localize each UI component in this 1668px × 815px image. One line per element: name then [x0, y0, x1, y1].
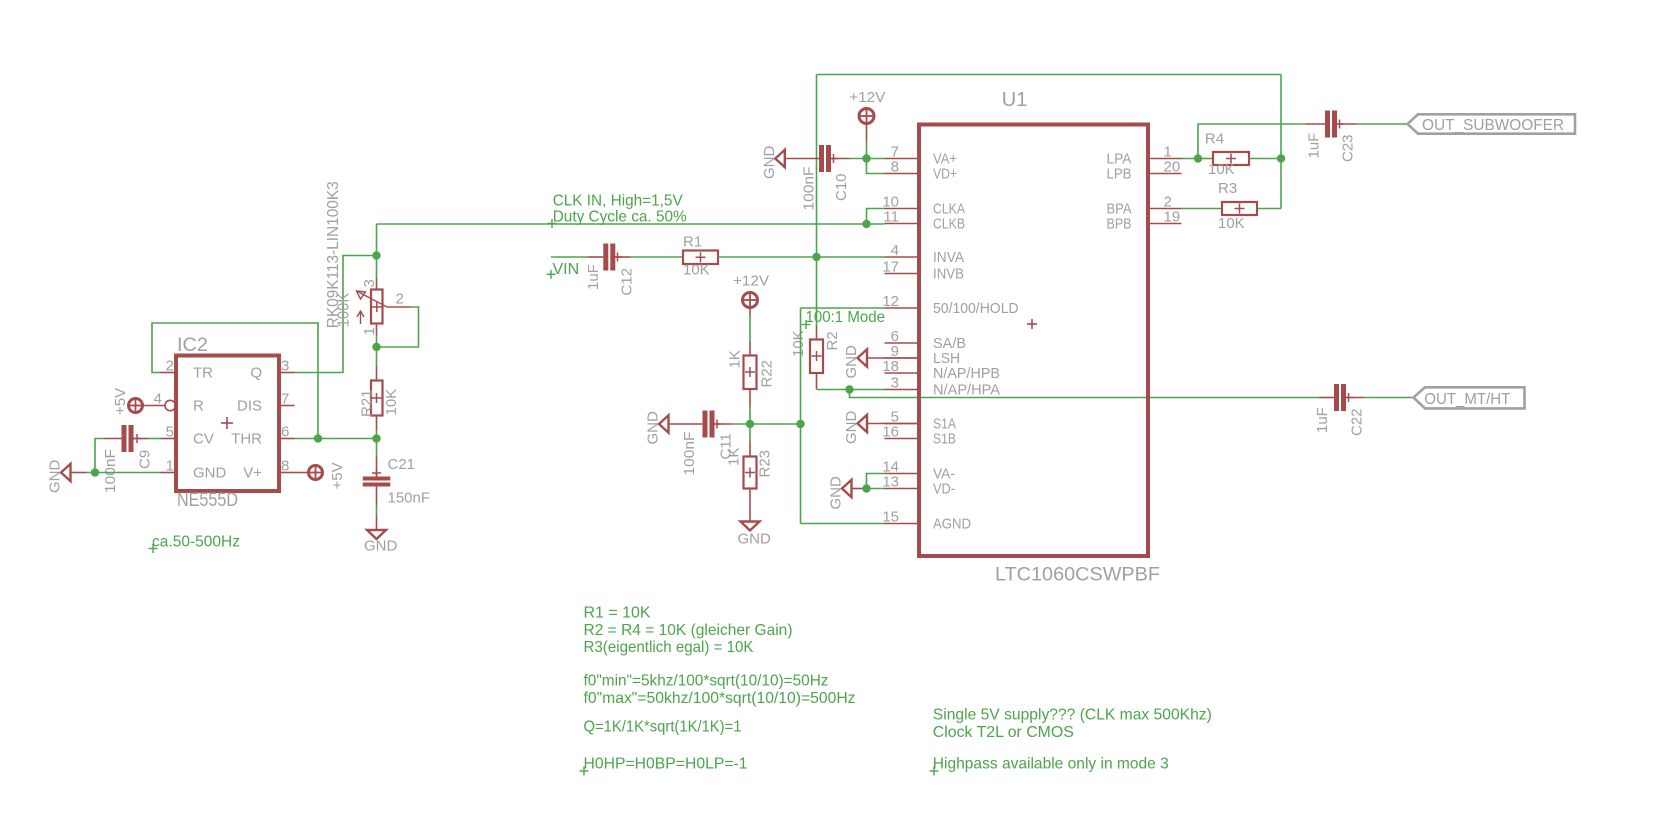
- svg-text:1: 1: [361, 327, 378, 335]
- svg-text:OUT_MT/HT: OUT_MT/HT: [1424, 391, 1510, 408]
- svg-text:100:1 Mode: 100:1 Mode: [806, 309, 886, 326]
- svg-text:AGND: AGND: [933, 516, 971, 533]
- +12V supply at R22: [743, 293, 758, 308]
- IC2 pin 6 THR stub: [279, 438, 295, 440]
- svg-text:1: 1: [166, 458, 174, 475]
- U1 pin 6 stub: [885, 342, 920, 344]
- U1 pin 15 stub: [885, 523, 920, 525]
- capacitor C22 plates: [1334, 384, 1339, 411]
- R1 origin cross: [696, 256, 706, 258]
- svg-text:+12V: +12V: [849, 89, 885, 106]
- U1 pin 14 stub: [885, 473, 920, 475]
- svg-text:+5V: +5V: [329, 462, 346, 489]
- C22 right lead: [1346, 397, 1364, 399]
- svg-text:GND: GND: [843, 411, 860, 445]
- wire feedback right vertical: [1280, 75, 1282, 209]
- origin cross CLK text: [548, 223, 557, 225]
- svg-text:1uF: 1uF: [585, 264, 602, 290]
- svg-text:50/100/HOLD: 50/100/HOLD: [933, 300, 1019, 317]
- svg-text:GND: GND: [828, 476, 845, 510]
- svg-text:Clock T2L or CMOS: Clock T2L or CMOS: [933, 724, 1074, 741]
- wire pin12: [801, 307, 885, 309]
- svg-text:3: 3: [891, 375, 899, 392]
- svg-text:VIN: VIN: [553, 261, 580, 278]
- IC2 pin 4 R stub: [143, 405, 165, 407]
- wire pot pin1 down: [376, 336, 378, 348]
- U1 pin 12 stub: [885, 307, 920, 309]
- IC2 origin cross: [221, 422, 233, 424]
- capacitor C23 plates: [1325, 111, 1330, 138]
- pot origin cross: [372, 306, 382, 308]
- svg-text:R3: R3: [1218, 180, 1237, 197]
- svg-text:R22: R22: [759, 360, 776, 388]
- origin cross ca.50-500Hz: [149, 548, 158, 550]
- svg-text:R4: R4: [1205, 131, 1224, 148]
- U1 pin 10 stub: [885, 208, 920, 210]
- capacitor C9 plates: [122, 425, 127, 452]
- svg-text:10K: 10K: [1208, 161, 1235, 178]
- wire C22 to flag: [1364, 397, 1414, 399]
- origin cross 100:1: [802, 324, 811, 326]
- U1 origin cross: [1027, 323, 1037, 325]
- svg-text:U1: U1: [1002, 89, 1028, 111]
- wire C9 left down to GND net: [95, 439, 104, 473]
- wire +12V to VA+: [866, 142, 868, 159]
- ground symbol at VD-: [842, 480, 852, 497]
- op-amp filter U1 body: [919, 125, 1148, 557]
- wire to VD-: [864, 488, 885, 490]
- ground symbol below C21: [367, 530, 386, 539]
- ground symbol left of C10: [775, 150, 785, 167]
- svg-text:5: 5: [166, 424, 174, 441]
- svg-text:6: 6: [281, 424, 289, 441]
- wire V+ to +5V: [295, 472, 309, 474]
- U1 pin 7 stub: [885, 158, 920, 160]
- junction node feedback/R4: [1277, 154, 1285, 162]
- wire wiper loop: [377, 307, 419, 347]
- pot adjust arrow: [360, 312, 362, 324]
- C9 right lead: [134, 438, 149, 440]
- C10 origin cross: [829, 158, 838, 160]
- wire R3 to feedback: [1257, 208, 1281, 210]
- capacitor C11 plates: [703, 411, 708, 438]
- svg-text:100nF: 100nF: [681, 432, 698, 476]
- svg-text:R21: R21: [359, 389, 376, 417]
- svg-text:Duty Cycle ca. 50%: Duty Cycle ca. 50%: [553, 209, 687, 226]
- resistor R22 body: [744, 356, 757, 390]
- R23 origin cross: [745, 472, 755, 474]
- svg-text:2: 2: [166, 358, 174, 375]
- svg-text:C9: C9: [137, 450, 154, 469]
- svg-text:R: R: [193, 398, 204, 415]
- wire R1 to INVA: [718, 256, 885, 258]
- svg-text:C10: C10: [833, 173, 850, 201]
- svg-text:11: 11: [883, 209, 899, 226]
- svg-text:GND: GND: [193, 465, 227, 482]
- resistor R2 body: [810, 340, 823, 374]
- svg-text:LTC1060CSWPBF: LTC1060CSWPBF: [995, 565, 1160, 586]
- junction node THR/R21: [372, 434, 380, 442]
- ground symbol at S1A: [858, 415, 868, 432]
- junction node HPA: [845, 385, 853, 393]
- wire Q to pot: [295, 256, 377, 373]
- R2 origin cross: [812, 355, 822, 357]
- C22 origin cross: [1344, 397, 1353, 399]
- C22 left lead: [1319, 397, 1334, 399]
- svg-text:CLKB: CLKB: [933, 216, 965, 233]
- potentiometer R20 body: [371, 290, 383, 324]
- GND stub: [71, 472, 87, 474]
- S1A GND lead: [867, 423, 920, 425]
- junction node CLK: [862, 220, 870, 228]
- svg-text:8: 8: [281, 458, 289, 475]
- wire +12V to R22: [749, 316, 751, 342]
- svg-text:INVB: INVB: [933, 266, 964, 283]
- svg-text:R23: R23: [757, 450, 774, 478]
- R21 origin cross: [372, 397, 382, 399]
- svg-text:20: 20: [1164, 159, 1181, 176]
- junction node pot top: [372, 251, 380, 259]
- wire AGND: [801, 523, 885, 525]
- svg-text:CV: CV: [193, 431, 214, 448]
- pot wiper stub: [387, 306, 410, 308]
- C21 top lead: [376, 457, 378, 477]
- resistor R21 body: [371, 381, 383, 416]
- svg-text:+5V: +5V: [112, 388, 129, 415]
- svg-text:1uF: 1uF: [1314, 407, 1331, 433]
- U1 pin 1 stub: [1148, 158, 1182, 160]
- svg-text:4: 4: [891, 242, 899, 259]
- VD- GND lead: [852, 488, 865, 490]
- wire R22 to C11 node: [749, 408, 751, 425]
- junction node pot/wiper: [372, 343, 380, 351]
- wire GND to IC2 pin1: [86, 472, 161, 474]
- +12V lead: [866, 124, 868, 142]
- svg-text:100nF: 100nF: [801, 167, 818, 211]
- wire CLK from pot: [377, 223, 867, 225]
- wire feedback vertical left: [816, 75, 818, 258]
- svg-text:BPB: BPB: [1107, 216, 1132, 233]
- junction node R22/C11: [746, 420, 754, 428]
- IC2 pin 3 Q stub: [279, 372, 295, 374]
- IC IC2 NE555D body: [176, 356, 279, 492]
- junction node TR/THR: [314, 434, 322, 442]
- svg-text:Highpass available only in mod: Highpass available only in mode 3: [933, 755, 1169, 772]
- svg-text:R2 = R4 = 10K (gleicher Gain): R2 = R4 = 10K (gleicher Gain): [584, 622, 793, 639]
- U1 pin 11 stub: [885, 223, 920, 225]
- U1 pin 13 stub: [885, 488, 920, 490]
- junction node GND/C9: [91, 468, 99, 476]
- svg-text:10K: 10K: [383, 389, 400, 416]
- ground symbol below R23: [741, 522, 760, 531]
- svg-text:Q=1K/1K*sqrt(1K/1K)=1: Q=1K/1K*sqrt(1K/1K)=1: [584, 719, 742, 736]
- IC2 pin 4 inversion bubble: [165, 400, 175, 410]
- svg-text:1K: 1K: [727, 350, 744, 368]
- IC2 pin 1 GND stub: [161, 472, 177, 474]
- U1 pin 9 stub: [885, 357, 920, 359]
- junction node VA+: [862, 154, 870, 162]
- svg-text:3: 3: [361, 279, 378, 287]
- svg-text:7: 7: [281, 391, 289, 408]
- svg-text:Q: Q: [250, 365, 262, 382]
- IC2 pin 7 DIS stub: [279, 405, 295, 407]
- origin cross H0HP note: [580, 770, 589, 772]
- R4 origin cross: [1226, 158, 1236, 160]
- svg-text:1K: 1K: [726, 448, 743, 466]
- C9 origin cross: [133, 438, 142, 440]
- svg-text:VD-: VD-: [933, 481, 955, 498]
- svg-text:10K: 10K: [790, 330, 807, 357]
- svg-text:C21: C21: [388, 456, 416, 473]
- wire HPA to OUT: [850, 390, 1320, 398]
- +12V R22 lead: [749, 308, 751, 316]
- svg-text:15: 15: [882, 509, 899, 526]
- svg-text:10K: 10K: [683, 261, 710, 278]
- resistor R4 body: [1213, 152, 1249, 165]
- ground symbol at LSH: [858, 349, 868, 366]
- pot wiper arrow: [359, 292, 388, 307]
- svg-text:H0HP=H0BP=H0LP=-1: H0HP=H0BP=H0LP=-1: [584, 755, 748, 772]
- wire TR loop: [152, 323, 318, 439]
- junction node mode wire: [796, 420, 804, 428]
- svg-text:150nF: 150nF: [388, 490, 431, 507]
- wire C21 to GND: [376, 505, 378, 515]
- resistor R3 body: [1222, 202, 1257, 215]
- svg-text:THR: THR: [231, 431, 262, 448]
- wire pot top to CLK: [376, 224, 378, 256]
- C23 origin cross: [1335, 123, 1344, 125]
- C12 origin cross: [613, 256, 622, 258]
- svg-text:C22: C22: [1349, 408, 1366, 436]
- IC2 pin 8 V+ stub: [279, 472, 295, 474]
- wire feedback top: [817, 74, 1282, 76]
- U1 pin 18 stub: [885, 372, 920, 374]
- svg-text:4: 4: [154, 391, 162, 408]
- svg-text:C23: C23: [1340, 134, 1357, 162]
- wire mode vertical: [800, 308, 802, 524]
- svg-text:R1 = 10K: R1 = 10K: [584, 604, 651, 621]
- U1 pin 3 stub: [885, 389, 920, 391]
- U1 pin 4 stub: [885, 256, 920, 258]
- wire C12 to R1: [630, 256, 683, 258]
- output flag OUT_MT/HT: [1414, 387, 1525, 408]
- C21 origin cross: [372, 472, 381, 474]
- C11 origin cross: [713, 423, 722, 425]
- svg-text:TR: TR: [193, 365, 213, 382]
- svg-text:16: 16: [882, 424, 899, 441]
- C10 right lead: [831, 158, 849, 160]
- svg-text:VD+: VD+: [933, 166, 957, 183]
- wire C11 to R22 node: [733, 423, 801, 425]
- ground symbol left of C11: [659, 415, 669, 432]
- svg-text:CLK IN, High=1,5V: CLK IN, High=1,5V: [553, 193, 683, 210]
- svg-text:GND: GND: [761, 146, 778, 180]
- wire R2 to N/AP/HPA: [817, 389, 885, 391]
- svg-text:R3(eigentlich egal) = 10K: R3(eigentlich egal) = 10K: [584, 639, 754, 656]
- wire pot to R21: [376, 347, 378, 366]
- capacitor C12 plates: [603, 244, 608, 271]
- svg-text:10K: 10K: [1218, 215, 1245, 232]
- U1 pin 20 stub: [1148, 173, 1182, 175]
- junction node VD-: [862, 484, 870, 492]
- R3 origin cross: [1235, 208, 1245, 210]
- C23 left lead: [1306, 123, 1326, 125]
- ground symbol GND left: [61, 464, 71, 481]
- svg-text:17: 17: [882, 259, 899, 276]
- C12 right lead: [615, 256, 630, 258]
- svg-text:R2: R2: [824, 331, 841, 350]
- +12V supply top: [859, 109, 874, 124]
- resistor R1 body: [683, 251, 718, 265]
- resistor R23 body: [744, 457, 757, 489]
- junction node LPA: [1194, 154, 1202, 162]
- IC2 pin 2 TR stub: [161, 372, 177, 374]
- origin cross Highpass note: [930, 770, 939, 772]
- C12 left lead: [588, 256, 603, 258]
- origin cross VIN: [547, 273, 556, 275]
- svg-text:N/AP/HPB: N/AP/HPB: [933, 365, 1000, 382]
- C21 bottom lead: [376, 487, 378, 506]
- svg-text:100nF: 100nF: [102, 449, 119, 493]
- wire C10 to VA+: [849, 158, 885, 160]
- svg-text:GND: GND: [364, 538, 398, 555]
- svg-text:12: 12: [882, 293, 899, 310]
- svg-text:13: 13: [882, 474, 899, 491]
- C11 left lead: [669, 423, 703, 425]
- wire R4 to feedback: [1249, 158, 1281, 160]
- svg-text:V+: V+: [243, 465, 262, 482]
- svg-text:OUT_SUBWOOFER: OUT_SUBWOOFER: [1422, 117, 1564, 134]
- svg-text:2: 2: [396, 291, 404, 308]
- U1 pin 8 stub: [885, 173, 920, 175]
- svg-text:GND: GND: [738, 531, 772, 548]
- wire VA- elbow: [867, 474, 885, 489]
- svg-text:f0"max"=50khz/100*sqrt(10/10)=: f0"max"=50khz/100*sqrt(10/10)=500Hz: [584, 690, 856, 707]
- C10 left lead: [785, 158, 819, 160]
- C23 right lead: [1337, 123, 1357, 125]
- wire pin2 to R3: [1182, 208, 1223, 210]
- svg-text:3: 3: [281, 358, 289, 375]
- wire VIN: [551, 256, 588, 258]
- C11 right lead: [715, 423, 734, 425]
- svg-text:100K: 100K: [336, 293, 353, 328]
- U1 pin 17 stub: [885, 273, 920, 275]
- wire C9 to CV: [148, 438, 161, 440]
- wire LPA up: [1198, 124, 1306, 159]
- wire node to R4: [1198, 158, 1213, 160]
- svg-text:18: 18: [882, 358, 899, 375]
- svg-text:Single 5V supply??? (CLK max 5: Single 5V supply??? (CLK max 500Khz): [933, 706, 1212, 723]
- wire CLKA elbow: [867, 209, 885, 225]
- wire VA+ to VD+: [867, 159, 885, 174]
- GND lead: [376, 515, 378, 530]
- svg-text:DIS: DIS: [237, 398, 262, 415]
- C9 left lead: [104, 438, 122, 440]
- svg-text:GND: GND: [843, 345, 860, 379]
- svg-text:NE555D: NE555D: [177, 490, 238, 511]
- capacitor C10 plates: [819, 145, 824, 172]
- svg-text:C12: C12: [619, 268, 636, 296]
- U1 pin 5 stub: [885, 423, 920, 425]
- U1 pin 19 stub: [1148, 223, 1182, 225]
- wire THR node to C21: [376, 439, 378, 457]
- output flag OUT_SUBWOOFER: [1408, 114, 1576, 133]
- svg-text:LPB: LPB: [1107, 166, 1132, 183]
- svg-text:1uF: 1uF: [1306, 133, 1323, 159]
- LSH GND lead: [867, 357, 920, 359]
- wire R21 to THR node: [376, 431, 378, 439]
- wire node to R23: [749, 424, 751, 441]
- U1 pin 16 stub: [885, 438, 920, 440]
- wire node to R2: [816, 257, 818, 326]
- wire THR: [295, 438, 377, 440]
- pot pin3 wire: [376, 256, 378, 278]
- U1 pin 2 stub: [1148, 208, 1182, 210]
- +5V supply at IC2 pin 8: [309, 466, 323, 480]
- IC2 pin 5 CV stub: [161, 438, 177, 440]
- svg-text:N/AP/HPA: N/AP/HPA: [933, 382, 1000, 399]
- svg-text:GND: GND: [47, 460, 64, 494]
- wire C23 to flag: [1357, 123, 1408, 125]
- svg-text:INVA: INVA: [933, 249, 964, 266]
- svg-text:S1B: S1B: [933, 431, 956, 448]
- svg-text:19: 19: [1164, 209, 1181, 226]
- junction node R1/feedback: [812, 253, 820, 261]
- wire pin1 to node: [1182, 158, 1199, 160]
- capacitor C21 plates: [363, 477, 391, 481]
- +5V supply at IC2 pin 4: [129, 399, 143, 413]
- svg-text:+12V: +12V: [733, 273, 769, 290]
- svg-text:GND: GND: [645, 411, 662, 445]
- svg-text:R1: R1: [683, 234, 702, 251]
- svg-text:f0"min"=5khz/100*sqrt(10/10)=5: f0"min"=5khz/100*sqrt(10/10)=50Hz: [584, 673, 829, 690]
- wire CLKB: [867, 223, 885, 225]
- svg-text:ca.50-500Hz: ca.50-500Hz: [152, 534, 240, 551]
- svg-text:8: 8: [891, 159, 899, 176]
- svg-text:IC2: IC2: [177, 335, 208, 356]
- R22 origin cross: [745, 371, 755, 373]
